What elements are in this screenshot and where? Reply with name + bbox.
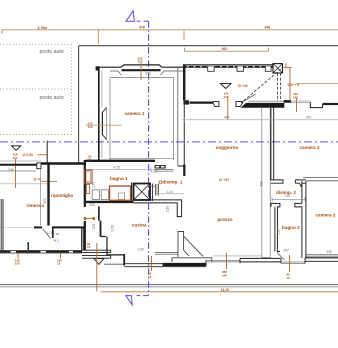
svg-text:202: 202 bbox=[92, 224, 96, 230]
terrace diagonal dashed bbox=[241, 69, 281, 103]
svg-text:1,13: 1,13 bbox=[47, 231, 53, 235]
level marker 0,00 bbox=[12, 146, 48, 188]
svg-text:posto auto: posto auto bbox=[40, 49, 64, 55]
bottom orange line bbox=[101, 291, 338, 293]
terrace door swing bbox=[244, 94, 256, 101]
ripostiglio south wall bbox=[0, 249, 82, 251]
svg-text:ripostiglio: ripostiglio bbox=[51, 193, 73, 198]
svg-text:2,62: 2,62 bbox=[165, 206, 169, 212]
elevator bbox=[134, 184, 151, 201]
terrace window wall band bbox=[183, 64, 283, 103]
camera1 inner left line bbox=[109, 78, 111, 160]
wall band south of terrace: left run bbox=[190, 101, 214, 103]
site boundary bottom double bbox=[0, 284, 338, 286]
svg-text:462: 462 bbox=[222, 47, 228, 51]
door jamb blocks bbox=[213, 102, 219, 107]
camera1 window annotation top bbox=[138, 56, 143, 80]
blue section line horizontal bbox=[0, 141, 338, 143]
soggiorno west wall bbox=[183, 65, 185, 101]
hall west wall cap bbox=[178, 165, 185, 167]
svg-text:15: 15 bbox=[57, 262, 61, 266]
blue section line vertical bbox=[148, 21, 150, 295]
bagno2 west wall outlined bbox=[271, 203, 280, 251]
bagno1 tall fixture bbox=[84, 170, 92, 183]
hall pocket door band bbox=[155, 165, 166, 168]
svg-text:4,75: 4,75 bbox=[114, 166, 120, 170]
svg-text:camera 2: camera 2 bbox=[316, 213, 336, 218]
gate line bbox=[46, 141, 48, 165]
svg-text:2,45: 2,45 bbox=[91, 182, 95, 188]
camera3 west wall bbox=[270, 107, 272, 180]
camera1 top wall bbox=[98, 65, 183, 67]
wc walls bbox=[34, 226, 42, 228]
svg-text:posto auto: posto auto bbox=[40, 95, 64, 101]
svg-text:cucina: cucina bbox=[132, 223, 147, 228]
svg-text:245: 245 bbox=[8, 168, 14, 172]
svg-text:disimp. 2: disimp. 2 bbox=[276, 190, 296, 195]
level marker terrace bbox=[221, 84, 248, 120]
svg-text:14,10: 14,10 bbox=[221, 288, 230, 292]
svg-text:478: 478 bbox=[139, 25, 145, 29]
rimessa/ripostiglio divider bbox=[47, 164, 49, 226]
camera3 door wall piece bbox=[295, 180, 306, 186]
camera1 west pier bbox=[102, 108, 106, 140]
svg-text:w.c.: w.c. bbox=[54, 239, 61, 243]
bottom wall west part bbox=[124, 263, 206, 265]
terrace corner box bbox=[273, 64, 283, 73]
wall band east of door (thick) bbox=[241, 103, 285, 108]
window opening in north wall bbox=[291, 100, 311, 102]
cucina door marker bbox=[85, 218, 95, 220]
top dimension line bbox=[2, 30, 338, 44]
shower bbox=[110, 186, 131, 200]
svg-text:bagno 2: bagno 2 bbox=[282, 225, 300, 230]
svg-text:120: 120 bbox=[138, 60, 143, 64]
svg-text:1,10: 1,10 bbox=[166, 190, 172, 194]
second dimension line 462 bbox=[185, 48, 269, 52]
svg-text:∅ +47: ∅ +47 bbox=[219, 178, 229, 182]
svg-text:∅ 0,00: ∅ 0,00 bbox=[23, 153, 34, 157]
cucina door jamb bbox=[98, 206, 100, 220]
terrace dashed pier bbox=[277, 73, 279, 101]
level marker +9 terrace east bbox=[283, 63, 338, 112]
svg-text:206: 206 bbox=[90, 203, 96, 207]
window posts bbox=[208, 66, 215, 71]
svg-text:230: 230 bbox=[327, 250, 333, 254]
rimessa top wall bbox=[0, 164, 36, 166]
bagno1 south wall bbox=[86, 201, 134, 203]
svg-text:297: 297 bbox=[284, 249, 290, 253]
svg-text:pranzo: pranzo bbox=[218, 217, 233, 222]
window annotations bottom bbox=[15, 242, 290, 292]
svg-text:camera 3: camera 3 bbox=[300, 145, 320, 150]
site boundary west bbox=[78, 46, 80, 163]
svg-text:15: 15 bbox=[287, 276, 291, 280]
svg-text:213: 213 bbox=[276, 229, 280, 235]
svg-text:soggiorno: soggiorno bbox=[216, 145, 239, 150]
building west wall bbox=[84, 160, 86, 207]
camera1 west window annotation bbox=[86, 122, 122, 129]
interior dim line soggiorno bbox=[182, 117, 338, 122]
svg-text:rimessa: rimessa bbox=[27, 203, 45, 208]
svg-text:297: 297 bbox=[306, 116, 312, 120]
svg-text:490: 490 bbox=[224, 116, 230, 120]
svg-text:150: 150 bbox=[15, 262, 20, 266]
rimessa west edge bbox=[0, 199, 2, 250]
svg-text:15: 15 bbox=[88, 158, 92, 162]
svg-text:140: 140 bbox=[222, 273, 227, 277]
svg-text:∅ +42: ∅ +42 bbox=[238, 84, 248, 88]
dim line under camera1 bbox=[85, 168, 151, 170]
cucina west wall bbox=[100, 221, 102, 237]
svg-text:3,30: 3,30 bbox=[110, 225, 114, 231]
svg-text:4,79m: 4,79m bbox=[38, 26, 48, 30]
svg-text:948: 948 bbox=[265, 25, 271, 29]
section marker top triangle bbox=[126, 11, 149, 21]
soggiorno west wall cap bbox=[183, 100, 189, 104]
svg-text:90: 90 bbox=[56, 232, 60, 236]
sinks bbox=[92, 190, 99, 200]
camera2 top double thin bbox=[303, 177, 338, 179]
svg-text:15: 15 bbox=[148, 275, 152, 279]
svg-text:1,28: 1,28 bbox=[151, 169, 157, 173]
svg-text:2,90: 2,90 bbox=[138, 248, 144, 252]
camera1 inner top line bbox=[110, 77, 174, 79]
svg-text:358: 358 bbox=[260, 181, 264, 187]
camera1 west wall bbox=[98, 66, 100, 160]
parking area dotted bbox=[0, 44, 71, 137]
svg-text:camera 1: camera 1 bbox=[125, 111, 145, 116]
building NW corner block bbox=[96, 66, 100, 70]
site boundary top bbox=[79, 45, 338, 47]
camera1 bottom wall bbox=[86, 160, 156, 162]
camera1 window band bbox=[122, 69, 161, 71]
camera2 bottom double thin bbox=[306, 254, 338, 256]
svg-text:140: 140 bbox=[293, 95, 298, 99]
svg-text:370: 370 bbox=[43, 198, 47, 204]
bagno2 east wall outlined bbox=[295, 181, 302, 258]
svg-text:disimp. 1: disimp. 1 bbox=[163, 179, 183, 184]
dim line disimp2 bbox=[272, 198, 305, 200]
svg-text:15: 15 bbox=[87, 245, 91, 249]
svg-text:206: 206 bbox=[145, 72, 151, 76]
camera3 recess bbox=[310, 103, 322, 108]
svg-text:bagno 1: bagno 1 bbox=[110, 176, 128, 181]
section marker bottom triangle bbox=[126, 296, 149, 305]
window wall bbox=[183, 64, 273, 66]
